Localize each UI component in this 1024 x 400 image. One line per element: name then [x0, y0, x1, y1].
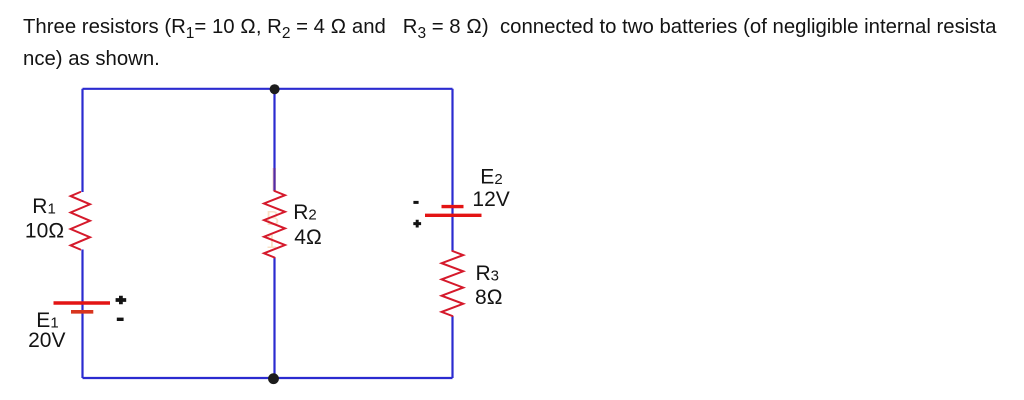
svg-text:20V: 20V [28, 329, 65, 352]
svg-text:R3: R3 [476, 262, 500, 285]
svg-text:10Ω: 10Ω [25, 219, 65, 242]
svg-text:R2: R2 [293, 201, 317, 224]
svg-text:4Ω: 4Ω [294, 226, 322, 249]
svg-text:12V: 12V [472, 188, 509, 211]
svg-text:8Ω: 8Ω [475, 286, 503, 309]
svg-text:E2: E2 [480, 166, 502, 189]
svg-text:R1: R1 [32, 195, 56, 218]
